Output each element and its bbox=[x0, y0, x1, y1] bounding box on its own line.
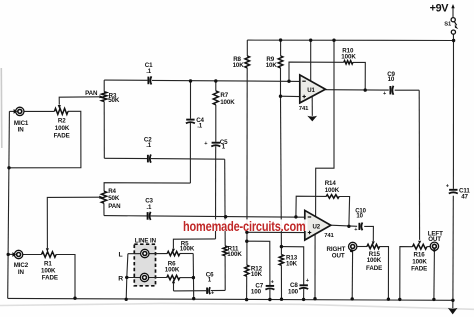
watermark homemade-circuits.com bbox=[182, 219, 308, 234]
wire C11 to ground bus bbox=[452, 196, 454, 300]
resistor R7 100K bbox=[213, 91, 218, 105]
R3 wiper arrow bbox=[99, 95, 103, 98]
svg-text:FADE: FADE bbox=[42, 274, 58, 281]
node R7 / U1 minus bus bbox=[214, 79, 217, 82]
RIGHT OUT jack contact bbox=[350, 249, 353, 252]
resistor R4 50K PAN bbox=[101, 191, 106, 203]
svg-text:+9V: +9V bbox=[430, 2, 450, 14]
RIGHT OUT jack bbox=[349, 242, 357, 250]
node rail / U2 Vplus bbox=[332, 39, 335, 42]
node bias / C7 bbox=[245, 240, 248, 243]
svg-text:IN: IN bbox=[18, 127, 25, 134]
svg-text:741: 741 bbox=[324, 233, 334, 239]
svg-text:741: 741 bbox=[299, 106, 309, 112]
wire rail down right side bbox=[452, 41, 454, 189]
wire bias to C8 bbox=[281, 247, 303, 285]
wire R10 right to U1 output bbox=[353, 62, 365, 90]
svg-text:100K: 100K bbox=[227, 251, 242, 258]
node LINE ground / bus bbox=[125, 298, 128, 301]
resistor R6 100K bbox=[167, 275, 180, 279]
svg-text:50K: 50K bbox=[108, 195, 120, 202]
resistor R15 100K FADE bbox=[367, 244, 380, 248]
wire bus after C1 to U1 bbox=[152, 80, 300, 81]
resistor R16 100K FADE bbox=[413, 244, 427, 249]
wire C3 / U2 minus bus bbox=[104, 215, 147, 217]
resistor R9 10K bbox=[278, 56, 283, 68]
MIC1 input jack bbox=[16, 107, 24, 115]
svg-text:10: 10 bbox=[356, 214, 363, 220]
resistor R3 50K PAN bbox=[102, 92, 107, 102]
wire down to R16 wiper bbox=[418, 90, 420, 240]
wire bias node to R13 bbox=[280, 247, 282, 255]
wire R6 wiper stem bbox=[173, 280, 175, 291]
wire R3 bottom stem bbox=[103, 102, 105, 159]
resistor R12 10K bbox=[245, 265, 249, 276]
svg-text:100: 100 bbox=[288, 288, 299, 295]
wire MIC1 jack to left bus bbox=[9, 110, 15, 112]
svg-text:LINE IN: LINE IN bbox=[135, 237, 157, 244]
resistor R10 100K bbox=[344, 61, 353, 64]
wire R12 to ground bus bbox=[246, 276, 248, 299]
resistor R2 100K FADE bbox=[54, 108, 68, 114]
LINE IN right jack bbox=[140, 273, 148, 281]
wire rail to U1 Vplus pin bbox=[310, 40, 312, 82]
svg-text:IN: IN bbox=[18, 269, 25, 276]
wire LEFT OUT jack ground bbox=[433, 251, 436, 300]
wire U2 output bbox=[331, 225, 357, 226]
resistor R14 100K bbox=[326, 195, 339, 199]
svg-text:R: R bbox=[118, 275, 123, 282]
MIC2 input jack bbox=[14, 250, 22, 258]
wire R8 down to R12 bbox=[246, 68, 248, 265]
svg-text:.1: .1 bbox=[146, 204, 152, 211]
svg-text:MIC2: MIC2 bbox=[14, 262, 29, 269]
node C8 / bus bbox=[302, 298, 305, 301]
wire U1 plus input bbox=[281, 95, 300, 97]
wire +9V rail bbox=[247, 39, 453, 41]
wire MIC2 jack to left bus bbox=[8, 253, 14, 255]
svg-text:100K: 100K bbox=[341, 54, 356, 61]
svg-text:L: L bbox=[119, 252, 123, 259]
svg-text:100K: 100K bbox=[180, 245, 195, 252]
R16 wiper arrow bbox=[418, 241, 421, 245]
op-amp U2 741 bbox=[305, 210, 335, 240]
wire rail to U2 Vplus pin bbox=[316, 40, 334, 217]
resistor R1 100K FADE bbox=[42, 252, 57, 258]
svg-text:U1: U1 bbox=[307, 87, 315, 94]
resistor R8 10K bbox=[245, 56, 250, 68]
capacitor C10 10 bbox=[359, 223, 362, 231]
svg-text:100K: 100K bbox=[55, 125, 70, 132]
wire C2 corner down through minus-bus to R11 bbox=[224, 159, 227, 246]
node R14 / U2 minus bbox=[294, 215, 297, 218]
LINE IN left jack bbox=[141, 249, 149, 257]
svg-text:10K: 10K bbox=[251, 271, 263, 278]
node R16 / bus bbox=[398, 298, 401, 301]
node C7 / bus bbox=[268, 298, 271, 301]
wire R4 bottom stem bbox=[103, 203, 105, 215]
faint page shadow line bottom bbox=[0, 304, 474, 310]
node U2 ground / bus bbox=[313, 297, 316, 300]
wire R5/R6 right drop to bus bbox=[192, 254, 195, 299]
capacitor C1 .1 bbox=[148, 76, 151, 84]
ground symbol bottom right bbox=[448, 308, 458, 315]
wire R10 feedback loop bbox=[289, 62, 344, 81]
node R10 / U1 output bbox=[364, 88, 367, 91]
wire U1 to ground symbol bbox=[311, 97, 313, 116]
capacitor C11 47 bbox=[449, 190, 458, 194]
svg-text:.1: .1 bbox=[146, 142, 152, 149]
R2 wiper arrow bbox=[58, 105, 61, 109]
wire bus down to R7 bbox=[215, 81, 217, 91]
wire R13 to ground bus bbox=[280, 265, 282, 299]
resistor R13 10K bbox=[279, 255, 283, 266]
wire R11 to C6 corner bbox=[224, 256, 226, 291]
switch S1 bbox=[451, 18, 458, 35]
wire C6 left to R6 wiper stem bbox=[174, 290, 207, 292]
svg-text:FADE: FADE bbox=[366, 265, 382, 272]
wire C3 to U2 minus input bbox=[151, 216, 305, 217]
node R8-R12 bias / U2 plus bbox=[245, 231, 248, 234]
ground symbol below U1 bbox=[307, 116, 317, 122]
svg-text:R16: R16 bbox=[414, 251, 426, 258]
node MIC2 / ground bus bbox=[7, 253, 10, 256]
svg-text:S1: S1 bbox=[444, 22, 452, 28]
wire MIC2 jack to R1 bbox=[23, 254, 42, 256]
LEFT OUT jack bbox=[430, 242, 438, 250]
wire C6 to R6 wiper bbox=[211, 289, 226, 291]
svg-text:100: 100 bbox=[251, 289, 262, 296]
wire R6 right to drop bbox=[180, 277, 194, 279]
svg-text:OUT: OUT bbox=[332, 252, 345, 259]
node R9 / U1 plus bbox=[279, 95, 282, 98]
wire R14 feedback loop bbox=[296, 196, 326, 217]
svg-text:homemade-circuits.com: homemade-circuits.com bbox=[183, 219, 306, 234]
wire R4 top to C4 bbox=[104, 183, 190, 192]
svg-text:50K: 50K bbox=[108, 97, 120, 104]
R4 wiper arrow bbox=[99, 196, 103, 199]
node R14 / U2 output bbox=[347, 225, 350, 228]
wire R9 to U1 plus bbox=[280, 68, 282, 96]
capacitor C5 1 bbox=[211, 143, 220, 147]
wire LINE IN R bbox=[125, 277, 167, 279]
wire bias line down to R13 bbox=[280, 96, 283, 246]
svg-text:R2: R2 bbox=[58, 118, 66, 125]
MIC1 jack contact wedge bbox=[14, 109, 18, 114]
MIC2 jack contact wedge bbox=[12, 252, 16, 257]
wire R5 right bbox=[180, 253, 193, 255]
wire R15 right to ground bus bbox=[379, 247, 388, 300]
capacitor C8 100 bbox=[299, 285, 308, 289]
node R2 loop / ground bus bbox=[7, 166, 10, 169]
+9V arrow head bbox=[451, 4, 454, 8]
capacitor C9 10 bbox=[390, 86, 393, 95]
R1 wiper arrow bbox=[46, 248, 49, 252]
wire C2 line bbox=[104, 157, 147, 159]
svg-text:FADE: FADE bbox=[54, 132, 70, 139]
R5 wiper arrow bbox=[172, 249, 175, 252]
node R13 / bus bbox=[280, 298, 283, 301]
svg-text:.1: .1 bbox=[146, 68, 152, 75]
svg-text:FADE: FADE bbox=[411, 266, 427, 273]
svg-text:100K: 100K bbox=[165, 267, 180, 274]
wire C7 to ground bus bbox=[269, 289, 271, 299]
wire R14 right to U2 output bbox=[339, 197, 350, 227]
node C4 / U1 minus bus bbox=[189, 79, 192, 82]
wire bottom ground bus bbox=[8, 298, 453, 300]
wire S1 to rail bbox=[452, 34, 454, 40]
wire RIGHT OUT jack ground bbox=[351, 251, 353, 299]
node rail / bus end bbox=[451, 299, 454, 302]
wire +9V arrow stem bbox=[452, 8, 454, 18]
svg-text:10K: 10K bbox=[286, 260, 298, 267]
faint left edge artifact bbox=[0, 68, 3, 148]
wire U1 minus input bus bbox=[104, 79, 147, 81]
capacitor C3 .1 bbox=[148, 212, 151, 220]
wire LINE IN ground drop bbox=[126, 254, 128, 300]
wire R1 wiper to R4 wiper bbox=[47, 197, 99, 248]
wire U2 ground pin to bus bbox=[314, 221, 316, 299]
wire RIGHT OUT jack to R15 bbox=[357, 246, 367, 248]
wire left ground bus bbox=[8, 111, 10, 298]
svg-text:100K: 100K bbox=[367, 257, 382, 264]
node RIGHT OUT ground / bus bbox=[351, 297, 354, 300]
capacitor C7 100 bbox=[265, 286, 274, 290]
wire LEFT OUT jack to R16 bbox=[427, 245, 430, 247]
wire R16 left to ground bus bbox=[400, 247, 413, 300]
svg-text:10K: 10K bbox=[233, 62, 245, 69]
capacitor C6 1 bbox=[207, 287, 210, 294]
svg-text:100K: 100K bbox=[220, 99, 235, 106]
wire bus down to C4 bbox=[190, 81, 192, 119]
svg-text:PAN: PAN bbox=[85, 90, 98, 97]
svg-text:R14: R14 bbox=[325, 180, 337, 187]
node rail / R9 bbox=[279, 38, 282, 41]
svg-text:100K: 100K bbox=[412, 258, 427, 265]
node S1 / rail bbox=[452, 39, 455, 42]
svg-text:10K: 10K bbox=[266, 62, 278, 69]
node R9-R13 bias / C8 bbox=[280, 245, 283, 248]
svg-text:OUT: OUT bbox=[428, 236, 441, 243]
wire U1 output bbox=[325, 89, 388, 91]
node R11 / U2 minus bus bbox=[224, 215, 227, 218]
svg-text:100K: 100K bbox=[325, 187, 340, 194]
wire LINE IN L bbox=[128, 253, 167, 255]
resistor R11 100K bbox=[223, 246, 227, 256]
svg-text:10: 10 bbox=[388, 76, 395, 83]
node rail / U1 Vplus bbox=[309, 39, 312, 42]
wire R2 right loop bbox=[9, 111, 81, 168]
node R15 / bus bbox=[387, 298, 390, 301]
wire C4 down to R4 wire bbox=[189, 123, 191, 183]
wire C8 to ground bus bbox=[303, 289, 305, 300]
wire across to R5 wiper bbox=[173, 239, 215, 249]
node R10 / U1 minus bbox=[287, 80, 290, 83]
capacitor C4 .1 bbox=[186, 120, 195, 124]
svg-text:.1: .1 bbox=[197, 122, 203, 129]
wire C2 to R11 corner bbox=[151, 158, 225, 161]
svg-text:U2: U2 bbox=[313, 224, 321, 231]
svg-text:47: 47 bbox=[461, 194, 468, 201]
wire R2 wiper to R3 wiper bbox=[59, 97, 99, 105]
R15 wiper arrow bbox=[372, 241, 375, 244]
wire rail to R8 bbox=[246, 40, 248, 56]
wire R1 right loop to ground bus bbox=[56, 255, 75, 299]
wire R3 top stem bbox=[103, 80, 105, 92]
wire R7 to C5 bbox=[215, 105, 217, 142]
LEFT OUT jack contact bbox=[433, 249, 436, 252]
LINE IN dashed box bbox=[134, 244, 155, 286]
wire C10 to R15 wiper bbox=[364, 226, 373, 241]
wire rail to R9 bbox=[280, 40, 282, 56]
wire bias to C7 bbox=[247, 241, 270, 285]
op-amp U1 741 bbox=[299, 75, 326, 112]
wire C5 down to R5 wiper wire bbox=[215, 146, 217, 239]
node R6 right / drop bbox=[192, 276, 195, 279]
capacitor C2 .1 bbox=[148, 155, 151, 163]
wire bus to ground symbol bbox=[452, 300, 454, 308]
wire U2 plus input bias bbox=[247, 231, 305, 233]
wire MIC1 jack to R2 bbox=[24, 110, 54, 112]
node LEFT OUT ground / bus bbox=[432, 298, 435, 301]
wire C9 to corner bbox=[395, 89, 420, 91]
node R12 / bus bbox=[245, 298, 248, 301]
node R5-R6 drop / bus bbox=[192, 297, 195, 300]
svg-text:PAN: PAN bbox=[108, 203, 121, 210]
node LINE R / ground drop bbox=[125, 276, 128, 279]
resistor R5 100K bbox=[167, 251, 180, 255]
node R1 loop / ground bus bbox=[73, 297, 76, 300]
R6 wiper arrow bbox=[172, 279, 175, 283]
